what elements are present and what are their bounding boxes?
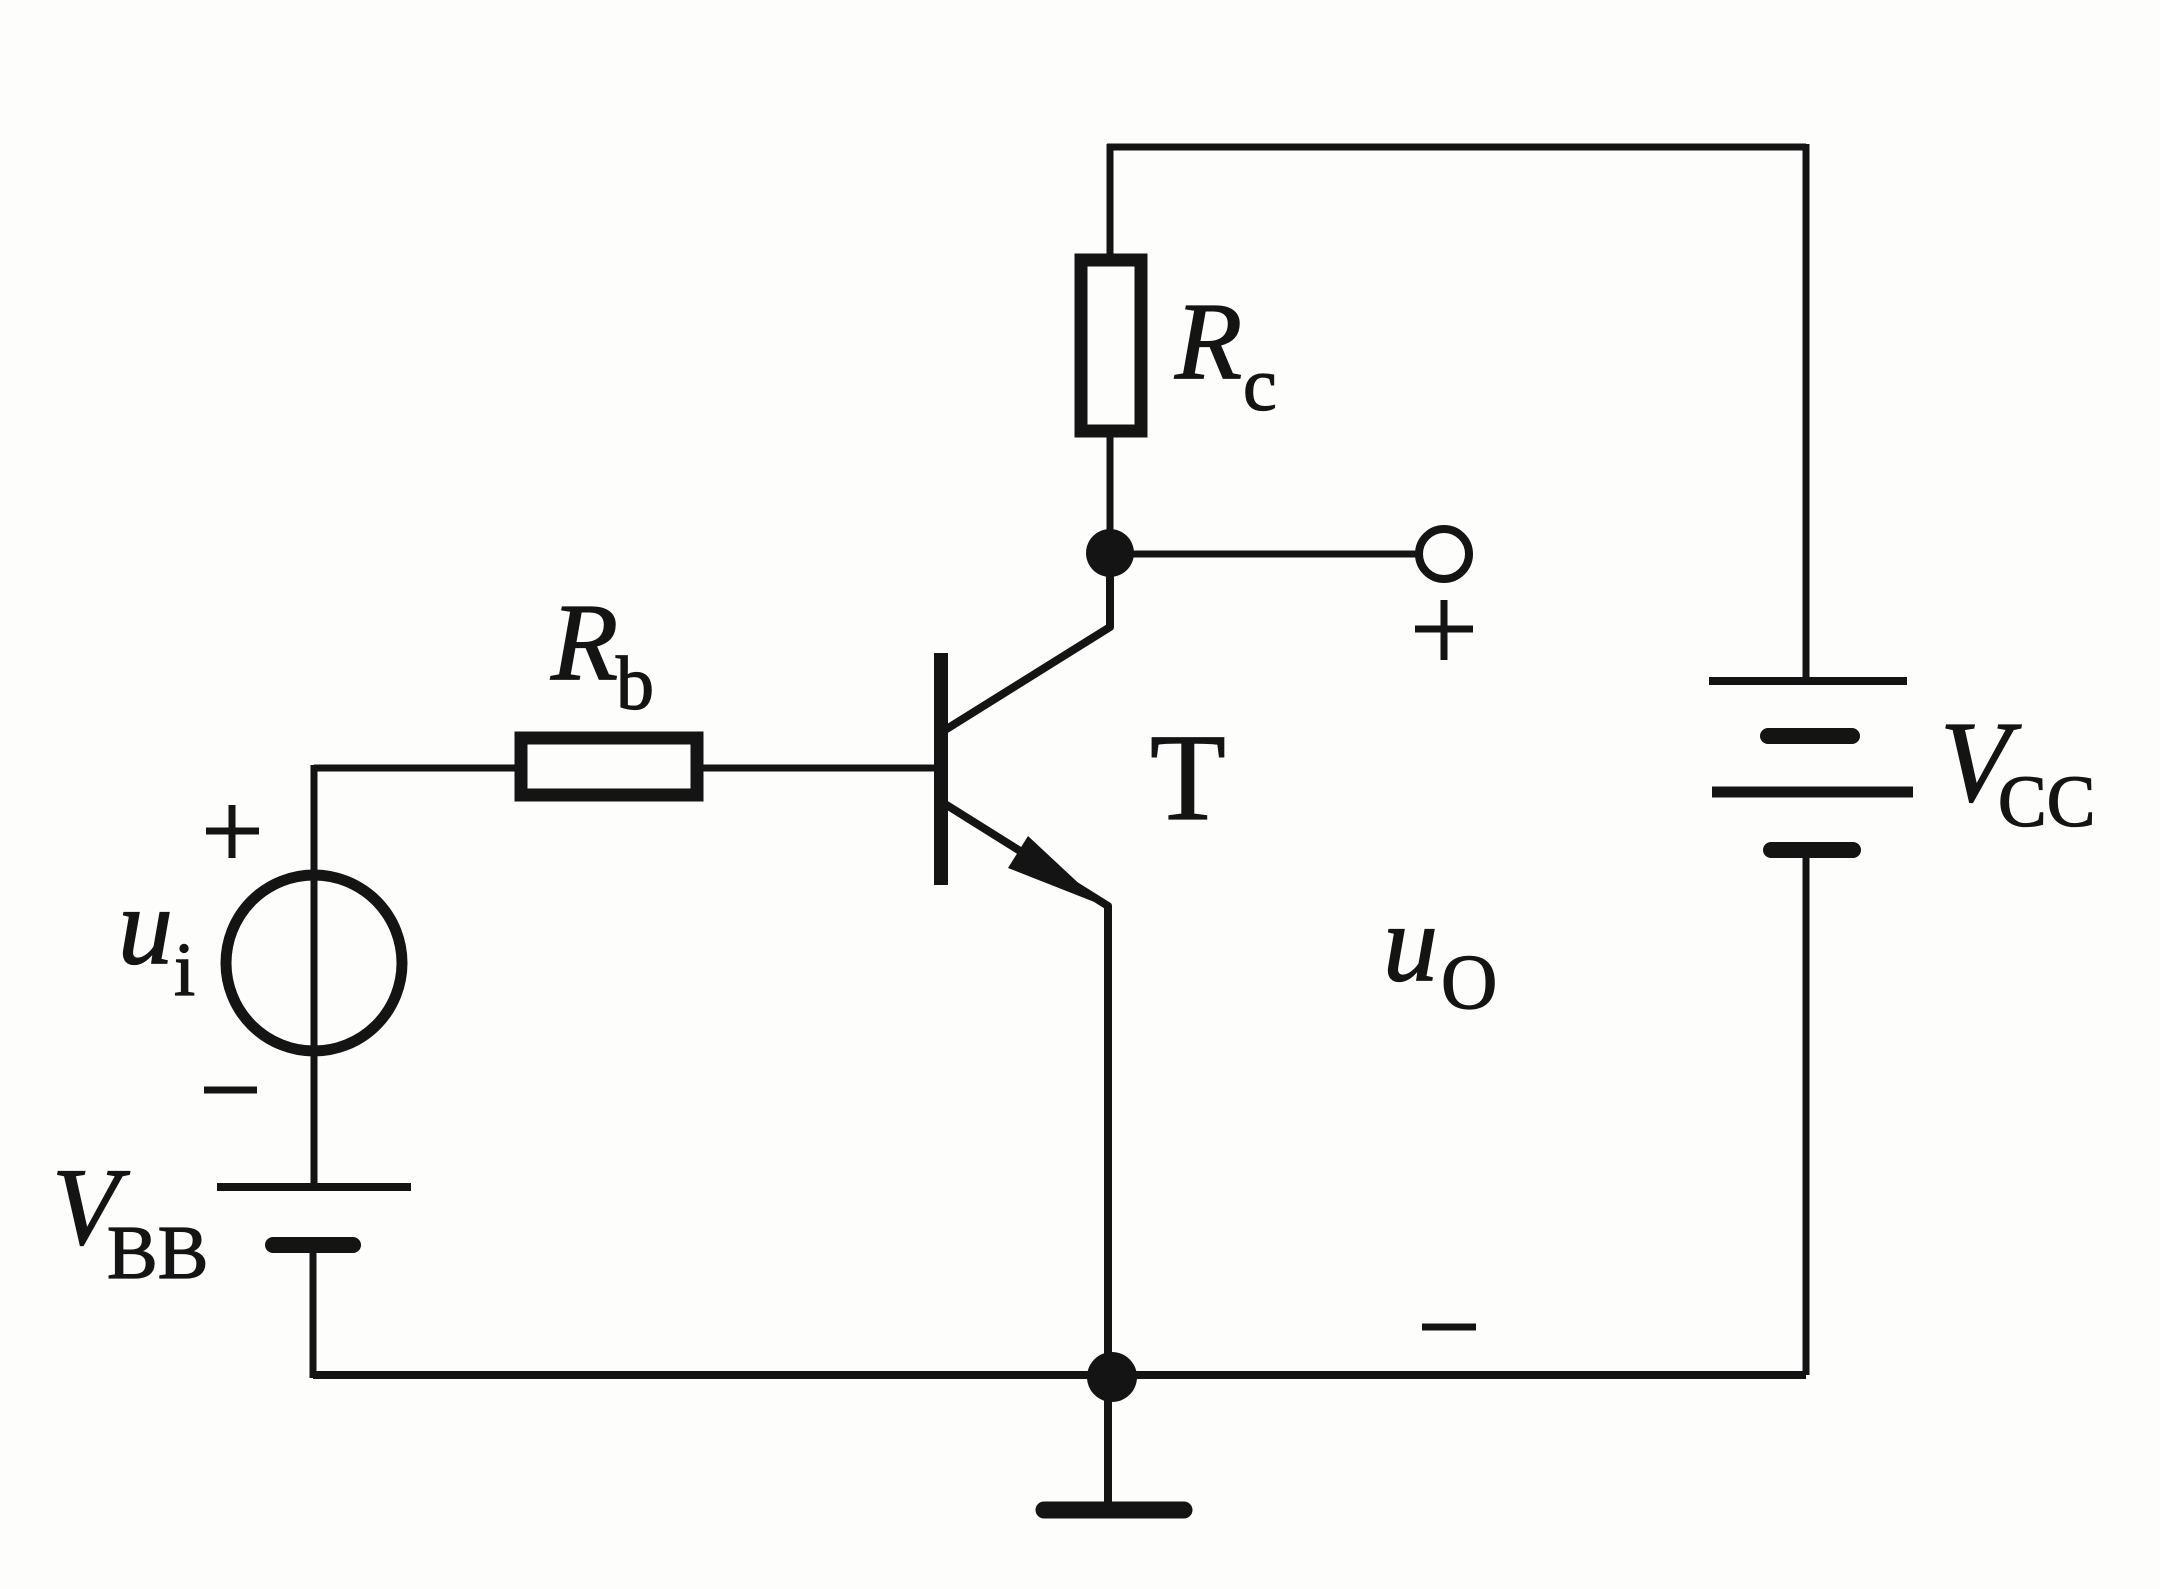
battery Vcc plate 1 long (1709, 677, 1907, 685)
svg-text:R: R (1174, 280, 1242, 402)
label Rb (550, 581, 654, 726)
battery Vcc plate 4 short (1771, 842, 1853, 858)
plus sign output (1415, 600, 1473, 660)
label Rc (1174, 280, 1277, 427)
svg-text:O: O (1441, 938, 1497, 1025)
node emitter junction (1087, 1352, 1137, 1402)
battery VBB short plate (273, 1237, 353, 1253)
wire Rc bottom lead to collector node (1107, 431, 1114, 556)
svg-text:u: u (1383, 882, 1438, 1004)
svg-text:u: u (118, 865, 173, 987)
battery Vcc plate 3 long (1712, 787, 1913, 798)
svg-text:T: T (1150, 709, 1226, 846)
ground (1044, 1502, 1184, 1519)
wire VBB to bottom rail (310, 1245, 317, 1378)
transistor T collector lead (945, 549, 1110, 730)
svg-text:CC: CC (1998, 761, 2095, 842)
output terminal (1419, 529, 1469, 579)
svg-text:R: R (550, 581, 618, 703)
wire top rail from Rc branch to Vcc branch (1107, 144, 1806, 151)
source ui circle (226, 875, 402, 1051)
transistor T base bar (934, 653, 948, 885)
resistor Rb (521, 738, 697, 795)
minus sign source (204, 1087, 257, 1094)
svg-text:BB: BB (107, 1211, 208, 1295)
svg-text:i: i (174, 928, 195, 1012)
wire base lead (314, 765, 934, 772)
node collector junction (1086, 529, 1134, 577)
wire Rc top lead (1107, 144, 1114, 260)
label ui (118, 865, 195, 1012)
resistor Rc (1081, 260, 1141, 431)
minus sign output bottom (1422, 1324, 1476, 1331)
wire Vcc branch lower (1803, 850, 1810, 1375)
plus sign source (206, 805, 259, 858)
label Vcc (1940, 699, 2095, 842)
battery VBB long plate (217, 1183, 411, 1191)
label VBB (52, 1146, 208, 1295)
wire Vcc branch upper (1803, 144, 1810, 681)
wire source branch vertical (311, 765, 318, 1187)
svg-text:c: c (1243, 343, 1277, 427)
transistor T emitter lead with arrow (945, 804, 1108, 1510)
svg-text:b: b (616, 642, 654, 726)
wire bottom rail (313, 1371, 1806, 1379)
battery Vcc plate 2 short (1768, 728, 1852, 744)
label uo (1383, 882, 1497, 1025)
wire output lead (1110, 551, 1419, 558)
